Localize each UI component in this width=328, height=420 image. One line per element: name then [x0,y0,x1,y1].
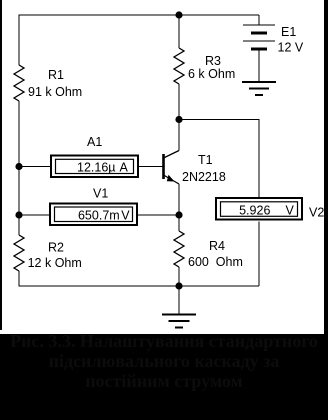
svg-text:2N2218: 2N2218 [182,170,226,184]
wire emitter down to R4 [178,184,180,231]
right page border [324,0,328,337]
svg-text:A1: A1 [87,135,102,149]
ground bottom center [162,315,196,328]
wire V1 left stub [19,214,49,216]
svg-text:12 k Ohm: 12 k Ohm [28,256,82,270]
caption block [0,334,328,420]
svg-text:Рис. 3.3. Налаштування стандар: Рис. 3.3. Налаштування стандартного [10,331,318,351]
svg-text:V1: V1 [93,187,108,201]
transistor T1 [164,151,180,185]
wire A1 right to base [139,166,163,168]
svg-text:E1: E1 [281,25,296,39]
svg-text:A: A [120,160,129,174]
voltmeter V2 [216,198,302,220]
svg-text:6 k Ohm: 6 k Ohm [188,67,235,81]
svg-text:12.16µ: 12.16µ [77,160,115,174]
node top rail [175,11,182,18]
resistor R3 [174,48,184,84]
svg-text:V2: V2 [309,206,324,220]
ammeter A1 [51,156,138,178]
wire top rail [19,15,259,65]
svg-text:R2: R2 [48,241,64,255]
svg-text:12 V: 12 V [278,41,304,55]
node collector [175,116,182,123]
voltmeter V1 [50,204,137,226]
svg-text:V: V [286,203,295,217]
wire collector node to V2 top [179,120,259,198]
svg-text:V: V [121,209,130,223]
wire left branch lower [18,101,20,235]
wire A1 left stub [19,166,50,168]
wire R3 to collector [178,84,180,151]
svg-text:постійним струмом: постійним струмом [85,371,243,391]
node V1 left [15,211,22,218]
battery E1 stem top [258,15,260,25]
battery E1 plates [243,25,275,49]
wire R4 bottom [178,267,180,286]
ground under battery [242,82,276,95]
svg-text:підсилювального каскаду за: підсилювального каскаду за [49,351,280,371]
svg-text:R3: R3 [205,54,221,68]
wire V2 bottom [258,222,260,287]
svg-text:5.926: 5.926 [239,203,270,217]
wire R2 bottom to bottom rail [19,271,259,286]
wire R3 branch top [178,15,180,48]
battery E1 stem bottom [258,49,260,82]
resistor R4 [174,231,184,267]
resistor R1 [14,65,24,101]
svg-text:91 k Ohm: 91 k Ohm [28,85,82,99]
wire V1 right to emitter [138,214,179,216]
svg-text:T1: T1 [198,153,213,167]
svg-text:R4: R4 [209,239,225,253]
resistor R2 [14,235,24,271]
node A1 left [15,163,22,170]
node bottom ground [175,282,182,289]
node emitter [175,211,182,218]
left page border [0,0,2,330]
wire ground stem bottom [178,286,180,314]
svg-text:R1: R1 [48,68,64,82]
svg-text:600 Ohm: 600 Ohm [188,255,243,269]
svg-text:650.7m: 650.7m [78,209,120,223]
